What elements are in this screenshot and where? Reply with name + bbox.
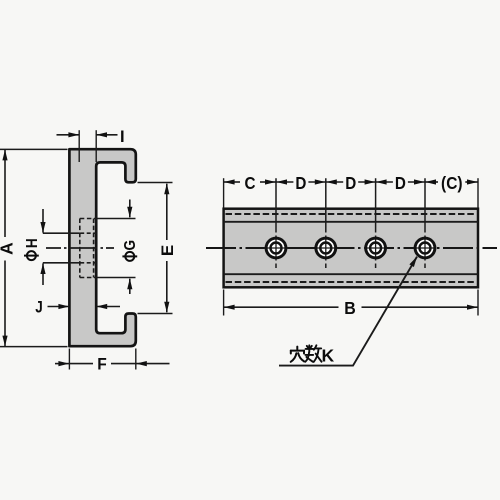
- hole 4: [414, 237, 437, 260]
- dimension J: [48, 306, 121, 308]
- leader for hole count: [279, 257, 417, 366]
- svg-text:D: D: [295, 173, 306, 193]
- dimension C2: [425, 181, 477, 183]
- hole centerline vertical 4: [424, 178, 426, 268]
- extension lines for I: [79, 130, 96, 162]
- hole 3: [364, 237, 387, 260]
- svg-text:F: F: [97, 355, 107, 374]
- label hole-count kanji ana: [291, 347, 305, 362]
- dimension D2: [326, 181, 375, 183]
- hole centerline vertical 1: [275, 178, 277, 268]
- rail centerline: [206, 247, 497, 249]
- hole H hidden lines: [43, 233, 96, 263]
- hole centerline vertical 3: [375, 178, 377, 268]
- hole 2: [314, 237, 337, 260]
- dimension I: [57, 134, 118, 136]
- extension line A bottom: [0, 346, 68, 348]
- dimension D1: [276, 181, 325, 183]
- dimension C: [224, 181, 276, 183]
- svg-text:J: J: [35, 299, 43, 317]
- extension line B right: [477, 290, 479, 316]
- counterbore hidden outline (dashed rect): [80, 219, 96, 278]
- svg-text:(C): (C): [441, 173, 463, 193]
- rail inner edge top: [224, 221, 478, 223]
- dimension F: [55, 363, 170, 365]
- hole 1: [265, 237, 288, 260]
- dimension E: [166, 184, 168, 313]
- label hole-count kanji kazu: [305, 345, 321, 362]
- channel body (side view): [69, 149, 135, 346]
- extension line A top: [0, 148, 68, 150]
- svg-text:A: A: [0, 242, 16, 255]
- svg-text:K: K: [322, 346, 335, 366]
- svg-text:G: G: [122, 240, 139, 251]
- hole centerline vertical 2: [325, 178, 327, 268]
- svg-text:D: D: [395, 173, 406, 193]
- dimension D3: [376, 181, 425, 183]
- rail inner edge bottom: [224, 273, 478, 275]
- svg-text:D: D: [345, 173, 356, 193]
- dimension phiG: [129, 200, 131, 295]
- centerline (side view): [46, 247, 114, 249]
- rail hidden edge bottom: [226, 281, 477, 283]
- svg-text:E: E: [158, 245, 177, 256]
- dimension B: [224, 306, 478, 308]
- svg-text:C: C: [245, 173, 256, 193]
- svg-text:B: B: [344, 298, 356, 318]
- extension lines for phiG: [96, 219, 135, 278]
- svg-text:I: I: [120, 128, 125, 146]
- rail body (front view): [224, 209, 478, 288]
- rail hidden edge top: [226, 213, 477, 215]
- extension lines for F: [69, 349, 135, 370]
- extension line B left: [223, 290, 225, 316]
- dimension phiH: [42, 209, 44, 285]
- dimension A: [4, 150, 6, 346]
- svg-text:H: H: [24, 238, 41, 248]
- extension lines for E: [138, 183, 173, 314]
- extension line rail right edge: [477, 178, 479, 207]
- extension line rail left edge: [223, 178, 225, 207]
